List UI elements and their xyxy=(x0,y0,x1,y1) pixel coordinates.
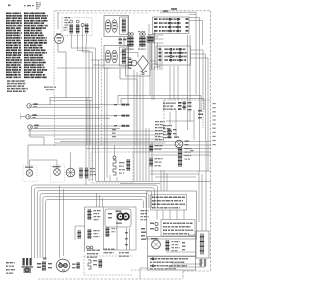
wire mid bus c xyxy=(60,141,211,143)
cooling fan M4 xyxy=(152,240,161,249)
right margin ticks xyxy=(213,103,216,104)
control box outline xyxy=(84,207,86,252)
connector P2 contacts xyxy=(165,48,166,50)
cabinet outline top xyxy=(55,10,211,12)
indicator lamp DS1 xyxy=(105,20,110,33)
main harness bundle xyxy=(32,185,158,258)
terminal rows T3 xyxy=(119,252,120,253)
contact box xyxy=(105,209,131,227)
wire color note xyxy=(44,87,45,88)
spark module diamond xyxy=(138,56,149,71)
clock wires xyxy=(57,12,59,29)
door switch S2 label xyxy=(32,114,37,116)
power labels xyxy=(5,262,8,263)
wire boxB corner xyxy=(119,69,121,80)
oven lamp DS5 xyxy=(26,170,33,177)
connector P2 box xyxy=(156,46,191,65)
spark feed drop xyxy=(127,59,129,104)
right h-lines xyxy=(150,170,211,172)
wire S3 down xyxy=(29,129,31,137)
cabinet outline bottom right xyxy=(183,270,211,272)
indicator box B xyxy=(104,46,129,69)
wire P2 latch drops xyxy=(169,66,171,100)
sheet number xyxy=(8,5,11,7)
blower motor M3 xyxy=(56,259,70,272)
door switch S2 xyxy=(26,115,30,119)
heater box xyxy=(196,231,209,258)
broil labels xyxy=(118,162,121,163)
switch box rows B xyxy=(162,223,165,225)
sensor dashed drop xyxy=(135,95,137,145)
broil element E1 xyxy=(113,156,116,159)
broil wires xyxy=(114,145,116,156)
fuse cluster xyxy=(37,263,41,265)
wire P1 box drop xyxy=(187,35,189,130)
spark ignitor internals xyxy=(129,59,132,61)
switch SW3 pilot xyxy=(81,24,84,27)
heater element E3 xyxy=(201,234,204,255)
left lattice verticals xyxy=(86,98,88,146)
switch box rows A xyxy=(152,197,153,199)
oven lamp box A xyxy=(23,166,37,182)
spark module box xyxy=(125,53,127,76)
terminal TB1 xyxy=(147,36,155,43)
heater pins xyxy=(200,259,202,267)
motor leads xyxy=(72,264,76,265)
resistor R2 box xyxy=(120,47,129,66)
wire S2 pair xyxy=(30,115,129,117)
resistor R2 xyxy=(122,49,125,65)
bake element E2 xyxy=(88,260,91,269)
wire console drops xyxy=(70,34,72,49)
door switch S3 xyxy=(28,125,32,129)
relay K1 labels xyxy=(137,49,140,50)
harness drop center xyxy=(96,193,98,207)
right verticals lower xyxy=(198,171,200,222)
oven sensor relay A xyxy=(150,145,152,152)
wire S1 pair xyxy=(31,104,129,106)
wire S2 stub xyxy=(20,116,26,118)
console lattice h xyxy=(50,100,93,102)
latch aux contact xyxy=(198,110,202,112)
junction blobs AB xyxy=(119,39,123,41)
wire console corner xyxy=(71,47,95,49)
wire mid bus xyxy=(28,144,211,146)
wire S3 pair xyxy=(32,125,129,127)
oven lamp box B xyxy=(51,165,65,182)
wire P1 right corners xyxy=(189,14,196,16)
sensor header rows xyxy=(154,121,157,122)
connector P1 box xyxy=(153,17,190,34)
latch motor M5 xyxy=(175,140,183,148)
wire P2 right corners xyxy=(191,49,204,51)
indicator lamp DS4 xyxy=(112,50,117,63)
latch box outline xyxy=(164,99,211,101)
switch box A outline xyxy=(151,195,187,211)
clock motor M1 xyxy=(55,35,64,44)
splice labels xyxy=(114,104,117,105)
fan labels xyxy=(89,168,92,169)
terminal rows T1 xyxy=(87,246,90,249)
wire mid bus d xyxy=(133,151,211,153)
switch SW3 contacts xyxy=(86,24,88,34)
splice joints xyxy=(122,104,126,106)
wire P1 left exits xyxy=(148,34,155,36)
legend code list xyxy=(5,13,8,15)
center lattice v xyxy=(149,35,151,70)
broil element E1b xyxy=(127,159,130,171)
thermostat TH1 xyxy=(128,33,131,36)
oven sensor probe xyxy=(179,147,182,167)
wire mid bus b xyxy=(86,148,211,150)
relay box C xyxy=(148,237,196,257)
thermostat labels xyxy=(124,49,127,50)
latch relay xyxy=(168,128,171,138)
surface switch box xyxy=(62,18,92,36)
console outline left lower xyxy=(54,95,56,147)
latch text xyxy=(163,103,164,104)
console lattice verticals xyxy=(92,52,94,181)
door switch S3 label xyxy=(34,125,39,127)
relay K3 xyxy=(88,209,91,220)
bottom right wires xyxy=(188,234,196,236)
heater exit wires xyxy=(168,258,205,267)
relay K5 xyxy=(88,229,91,239)
oven lamp DS6 xyxy=(54,169,61,176)
wire P2 left stubs xyxy=(150,60,156,62)
switch circles xyxy=(155,222,158,225)
oven sensor relay B xyxy=(150,158,152,167)
power cord block xyxy=(23,258,25,266)
latch text 2 xyxy=(163,125,164,126)
relay K1 xyxy=(140,33,143,36)
left col text xyxy=(141,210,142,211)
switch SW2 contacts xyxy=(77,24,79,34)
convection fan M2 xyxy=(66,168,75,177)
console outline left xyxy=(53,11,55,95)
aux relay xyxy=(78,230,80,239)
harness drop fan xyxy=(59,186,61,258)
tick pair xyxy=(126,228,128,250)
indicator lamp DS3 xyxy=(105,50,110,63)
bake element box xyxy=(84,255,133,257)
switch SW1 contacts xyxy=(70,24,72,34)
title stack xyxy=(36,2,37,3)
fan capacitor C1 xyxy=(80,168,82,179)
door switch S1 label xyxy=(33,103,38,105)
spark ignitor circle xyxy=(131,60,137,66)
contact pair CR1 xyxy=(117,213,123,219)
left col text b xyxy=(141,228,145,230)
indicator box A xyxy=(104,16,129,37)
console bus verticals xyxy=(85,44,87,185)
center lattice h xyxy=(150,34,164,36)
mid h wires a xyxy=(28,130,160,132)
door switch S1 xyxy=(27,104,31,108)
right vertical group xyxy=(160,170,162,191)
indicator lamp DS2 xyxy=(112,20,117,33)
mid nested right a xyxy=(118,95,201,97)
switch box D xyxy=(148,257,196,271)
fan relay K7 xyxy=(166,240,169,251)
bottom switch rows xyxy=(149,258,152,260)
bottom dashed inner xyxy=(131,269,183,271)
resistor R1 box xyxy=(120,17,129,35)
box A-B links xyxy=(156,210,158,220)
connector P1 contacts xyxy=(154,18,158,20)
harness top line xyxy=(96,181,211,183)
control outer box xyxy=(147,191,197,239)
cabinet outline right xyxy=(210,11,212,271)
latch inner wire xyxy=(166,120,194,122)
switch SW1 labels xyxy=(65,17,66,18)
wire control left xyxy=(75,225,85,227)
cabinet outline bottom xyxy=(38,278,183,280)
spark terminals xyxy=(142,72,144,74)
resistor R1 xyxy=(122,19,125,33)
connector P1 label xyxy=(171,8,177,10)
switch box B outline xyxy=(161,220,195,237)
latch switch xyxy=(178,102,182,104)
sensor drops xyxy=(133,70,135,181)
notes block xyxy=(6,80,9,82)
lamp wires xyxy=(29,160,31,170)
broil element box xyxy=(91,152,133,183)
latch verticals xyxy=(175,110,177,138)
console dashed right xyxy=(101,38,103,145)
relay K6 xyxy=(106,227,109,237)
mid nested right b xyxy=(121,98,204,100)
terminal rows T2 xyxy=(104,249,105,250)
spark wires xyxy=(120,52,138,54)
